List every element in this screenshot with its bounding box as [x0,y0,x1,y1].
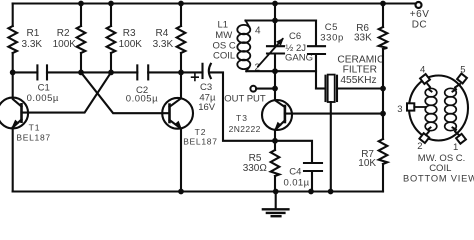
wire T3 collector from tank [275,71,285,107]
svg-text:16V: 16V [198,102,216,113]
inductor L1 [213,20,262,74]
capacitor C3 [192,64,216,113]
svg-text:100K: 100K [119,39,143,50]
transistor T1 [0,72,51,191]
svg-text:C5: C5 [325,22,338,33]
wire C2 to R4 junction [148,71,181,73]
capacitor C4 [275,141,322,192]
svg-text:R5: R5 [249,153,262,164]
svg-text:T2: T2 [195,127,207,137]
capacitor C5 [308,21,344,89]
wire bottom ground rail [13,190,383,192]
svg-text:R2: R2 [57,28,70,39]
capacitor C2 [126,65,158,104]
node output tap [272,86,278,92]
ceramic filter 455KHz [316,54,384,191]
svg-text:3.3K: 3.3K [153,39,174,50]
svg-text:T3: T3 [236,113,248,123]
svg-text:33K: 33K [354,33,372,44]
transistor T3 [229,100,292,141]
svg-text:5: 5 [460,65,465,76]
wire R2 junction to R3 junction [81,71,111,73]
node OUT PUT terminal [224,86,275,105]
resistor R1 [8,4,42,73]
svg-text:2: 2 [417,141,422,152]
capacitor C1 [27,65,59,103]
svg-text:455KHz: 455KHz [340,75,376,86]
node filter to R6 column [380,86,386,92]
svg-text:4: 4 [420,65,425,76]
svg-text:BOTTOM VIEW: BOTTOM VIEW [403,173,474,183]
coil bottom view pin 1 [453,128,466,154]
svg-text:R3: R3 [123,28,136,39]
resistor R6 [354,1,387,114]
svg-text:10K: 10K [358,158,376,169]
node T2 emitter at rail [178,189,184,195]
coil bottom view pin 3 [397,103,425,115]
svg-text:OUT PUT: OUT PUT [224,94,266,105]
coil bottom view caption [403,153,474,183]
svg-text:3.3K: 3.3K [22,39,43,50]
node R4 junction [178,70,184,76]
node R1-C1 junction [10,70,16,76]
svg-text:BEL187: BEL187 [183,137,217,147]
node R5 at rail [273,189,279,195]
coil bottom view pin 5 [453,65,467,92]
resistor R5 [243,141,280,192]
coil bottom view left winding [425,88,437,130]
node T3 emitter junction [272,138,278,144]
svg-text:330Ω: 330Ω [243,163,268,174]
svg-text:COIL: COIL [213,51,235,62]
svg-text:330p: 330p [320,33,344,44]
resistor R4 [153,1,186,73]
node C4 at rail [308,189,314,195]
wire R3 junction to C2 [111,71,137,73]
wire R1 junction to C1 [13,71,38,73]
svg-text:0.005µ: 0.005µ [27,93,59,104]
svg-text:R1: R1 [27,28,40,39]
node filter ground at rail [328,189,334,195]
svg-text:1: 1 [453,142,458,153]
svg-text:BEL187: BEL187 [16,133,50,143]
coil bottom view pin 2 [417,128,430,153]
wire R4 junction to C3 [181,71,203,73]
svg-text:3: 3 [397,104,402,115]
wire tank bottom [246,68,316,74]
resistor R2 [53,1,86,73]
svg-text:0.01µ: 0.01µ [284,178,310,189]
svg-text:DC: DC [412,19,427,30]
resistor R3 [107,1,143,73]
svg-text:2N2222: 2N2222 [229,124,261,134]
ground [263,192,289,217]
capacitor C6 variable [258,21,313,72]
wire top rail drop to tank [272,1,278,21]
resistor R7 [358,114,387,192]
svg-text:4: 4 [255,26,261,37]
coil bottom view circle [409,76,468,141]
wire cross-couple R2 junction to T2 base [81,72,168,113]
wire C1 to R2 junction [47,71,81,73]
svg-text:C4: C4 [289,167,301,178]
svg-text:100K: 100K [53,39,77,50]
node +6V terminal [410,2,430,30]
coil bottom view right winding [445,88,457,130]
transistor T2 [162,72,217,191]
coil bottom view pin 4 [420,65,432,92]
svg-text:FILTER: FILTER [343,64,377,75]
node R2 junction [78,70,84,76]
svg-text:R4: R4 [156,28,169,39]
svg-text:0.005µ: 0.005µ [126,94,158,105]
wire cross-couple R3 junction to T1 base [22,72,112,112]
wire tank top [246,18,317,24]
node R3 junction [108,70,114,76]
svg-text:C6: C6 [289,31,301,42]
wire T3 base [285,113,383,115]
wire top supply rail [13,2,416,4]
node T3 base to R6/R7 divider [380,111,386,117]
wire C3 to R5 junction (down and right) [210,72,275,140]
svg-text:T1: T1 [29,123,41,133]
